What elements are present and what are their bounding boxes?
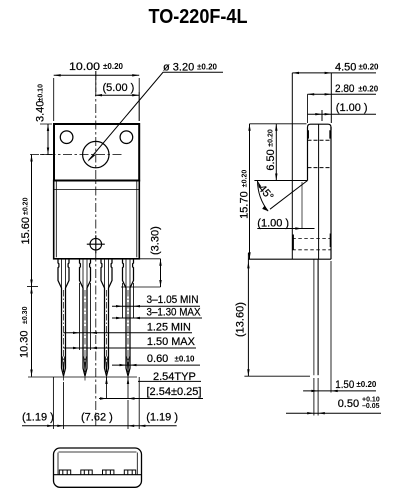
lead tip extension line: [28, 376, 137, 378]
small hole right: [120, 131, 133, 144]
svg-text:(3.30): (3.30): [150, 226, 162, 255]
svg-text:±0.20: ±0.20: [356, 380, 377, 389]
svg-text:1.50: 1.50: [335, 379, 354, 391]
svg-text:±0.20: ±0.20: [268, 129, 275, 147]
svg-text:2.80: 2.80: [335, 83, 355, 95]
front view mounting tab: [54, 124, 139, 181]
dimension 0.60: [112, 364, 200, 366]
side view lead: [313, 259, 315, 375]
svg-text:–0.05: –0.05: [362, 403, 380, 410]
front view body outline: [54, 181, 140, 259]
svg-text:15.70: 15.70: [239, 191, 251, 219]
body inner line left: [55, 182, 57, 258]
svg-text:3–1.05 MIN: 3–1.05 MIN: [147, 294, 199, 306]
svg-text:(1.19 ): (1.19 ): [146, 412, 178, 424]
svg-text:±0.10: ±0.10: [37, 84, 44, 102]
dimension 1.25 MIN: [64, 332, 193, 334]
svg-text:10.30: 10.30: [19, 330, 31, 358]
front view horizontal centerline through hole: [30, 154, 122, 156]
bottom dimension line: [22, 425, 177, 427]
lead4 wide width witness lines: [123, 283, 134, 319]
svg-text:0.60: 0.60: [147, 353, 168, 365]
dimension 10.00 line: [54, 74, 140, 76]
dimension 10.00 witness lines: [54, 78, 140, 121]
bottom view outline: [54, 448, 142, 487]
dimension 15.60: [31, 155, 33, 287]
leader line for hole diameter: [89, 72, 224, 160]
svg-text:±0.20: ±0.20: [22, 197, 29, 215]
lead 2: [80, 259, 91, 382]
pin mark circle: [90, 238, 102, 250]
dimension 13.60: [247, 253, 249, 376]
side view chamfer: [270, 181, 308, 210]
lead 3: [101, 259, 112, 382]
side view hidden pin mark lines: [292, 239, 331, 250]
dimension 6.50: [275, 124, 277, 181]
side view body bottom: [248, 258, 331, 260]
svg-text:15.60: 15.60: [20, 217, 32, 245]
front view vertical centerline: [95, 71, 97, 426]
bottom view lead stubs: [59, 470, 135, 475]
dimension 2.80: [308, 93, 377, 95]
svg-text:±0.20: ±0.20: [358, 85, 379, 94]
svg-text:±0.30: ±0.30: [22, 306, 29, 324]
side view back edge: [330, 127, 332, 259]
bottom dimension witness lines: [53, 377, 139, 429]
dimension 3-1.30 MAX: [112, 317, 202, 319]
mounting hole: [83, 141, 109, 167]
lead 4: [123, 259, 134, 382]
dimension 4.50: [292, 72, 376, 74]
svg-text:1.50 MAX: 1.50 MAX: [147, 336, 196, 348]
dimension 1.00 top: [308, 113, 377, 115]
side view tab outline: [308, 124, 332, 180]
side view hidden hole lines: [308, 140, 332, 167]
lead2 wide width witness lines: [80, 283, 91, 350]
dimension 2.54 bracket: [107, 377, 129, 399]
svg-text:3.40: 3.40: [35, 101, 47, 122]
side view step: [254, 180, 307, 182]
svg-text:TO-220F-4L: TO-220F-4L: [149, 6, 248, 28]
svg-text:(1.00 ): (1.00 ): [257, 218, 289, 230]
dimension 1.50: [303, 390, 376, 392]
body inner line right: [136, 182, 138, 258]
bottom view face line: [54, 474, 142, 476]
lead 1: [58, 259, 69, 382]
body inner line top: [54, 189, 140, 191]
svg-text:(1.19 ): (1.19 ): [22, 412, 54, 424]
dimension 3.40: [40, 124, 52, 155]
dimension 0.50: [286, 412, 381, 414]
svg-text:(13.60): (13.60): [235, 302, 247, 337]
svg-text:2.54TYP: 2.54TYP: [153, 371, 196, 383]
side view parting line: [318, 124, 320, 259]
side view front face: [291, 73, 293, 259]
svg-text:(7.62 ): (7.62 ): [81, 412, 113, 424]
svg-text:6.50: 6.50: [265, 149, 277, 170]
svg-text:±0.20: ±0.20: [103, 62, 124, 71]
dimension 5.00 line: [95, 94, 139, 96]
svg-text:(5.00 ): (5.00 ): [103, 82, 135, 94]
svg-text:1.25 MIN: 1.25 MIN: [147, 322, 191, 334]
svg-text:ø 3.20: ø 3.20: [163, 62, 194, 74]
svg-text:[2.54±0.25]: [2.54±0.25]: [147, 386, 202, 398]
small hole left: [60, 131, 73, 144]
dimension 10.30: [31, 287, 33, 377]
svg-text:3–1.30 MAX: 3–1.30 MAX: [147, 307, 202, 319]
svg-text:4.50: 4.50: [335, 62, 356, 74]
dimension 15.70: [250, 123, 307, 125]
svg-text:±0.20: ±0.20: [197, 63, 218, 72]
svg-text:±0.10: ±0.10: [175, 355, 196, 364]
45 degree arc: [258, 181, 269, 211]
svg-text:±0.20: ±0.20: [242, 170, 249, 188]
dimension 1.50 MAX: [64, 347, 197, 349]
svg-text:10.00: 10.00: [69, 61, 100, 73]
svg-text:±0.20: ±0.20: [359, 63, 380, 72]
svg-text:0.50: 0.50: [338, 398, 359, 410]
svg-text:(1.00 ): (1.00 ): [336, 102, 368, 114]
dimension 1.00 bottom: [257, 228, 314, 230]
dimension 3-1.05 MIN: [112, 305, 200, 307]
dimension 3.30: [121, 259, 161, 287]
dimension 2.54TYP link: [138, 380, 201, 382]
